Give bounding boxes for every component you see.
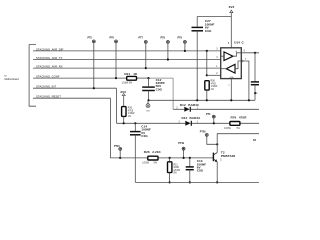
wire STACKING_RESET (33, 97, 111, 99)
ground bus (149, 99, 256, 101)
wire STACKING_AVR_RX (33, 67, 221, 69)
svg-text:D12: D12 (180, 103, 186, 107)
svg-text:PMSTA06: PMSTA06 (221, 154, 236, 158)
svg-text:BAR43: BAR43 (190, 116, 201, 120)
svg-text:5%: 5% (154, 162, 157, 164)
diode D12 (173, 103, 259, 112)
svg-text:475R: 475R (239, 115, 247, 119)
test point PT49 (178, 142, 185, 159)
svg-text:PT6: PT6 (110, 37, 115, 40)
capacitor C13 (186, 157, 207, 184)
wire INT corner down (116, 88, 118, 123)
capacitor C12 (142, 78, 165, 100)
test point PT7 (139, 37, 148, 70)
svg-text:47K5: 47K5 (128, 110, 134, 112)
resistor R36 (205, 81, 218, 102)
transistor T2 (213, 151, 235, 184)
test point PT5 (88, 37, 96, 90)
svg-text:STACKING_INT: STACKING_INT (36, 85, 56, 89)
svg-text:U14: U14 (234, 41, 240, 45)
svg-text:PT49: PT49 (178, 142, 184, 145)
resistor R26 (142, 150, 161, 164)
resistor R76 (224, 115, 247, 130)
svg-text:PT9: PT9 (178, 37, 183, 40)
wire CONF to D12 (172, 78, 174, 109)
svg-text:R30: R30 (128, 108, 133, 110)
resistor R30 (122, 107, 136, 125)
svg-text:5%: 5% (237, 128, 240, 130)
IC output wire (241, 52, 259, 54)
wire collector to edge (217, 134, 259, 153)
svg-text:1/16W: 1/16W (142, 162, 149, 164)
IC GND pin wire (230, 79, 232, 101)
svg-text:D14: D14 (182, 116, 188, 120)
wire STACKING_AVR_DIP (33, 50, 221, 52)
test point PT8 (161, 37, 170, 61)
svg-text:5%: 5% (173, 172, 176, 174)
internal wires (221, 55, 225, 57)
op-amp U14 buffer IC (216, 41, 244, 87)
svg-text:2.21K: 2.21K (152, 150, 161, 154)
svg-text:STACKING_AVR_DIP: STACKING_AVR_DIP (36, 47, 64, 51)
svg-text:Motherboard: Motherboard (5, 78, 20, 81)
resistor R21 (122, 72, 138, 84)
svg-text:1/16W 5%: 1/16W 5% (122, 83, 133, 85)
rail RESET lower (120, 157, 148, 159)
resistor R31 (168, 157, 181, 184)
svg-text:1/16W: 1/16W (211, 86, 218, 88)
svg-text:PT50: PT50 (200, 130, 206, 133)
wire STACKING_CONF (33, 77, 127, 79)
svg-text:STACKING_AVR_TX: STACKING_AVR_TX (36, 56, 62, 60)
svg-text:PT4: PT4 (206, 113, 211, 116)
test point PT4 (206, 113, 216, 125)
svg-text:R36: R36 (211, 81, 216, 83)
test point PT6 (110, 37, 118, 80)
svg-text:C0G: C0G (156, 87, 163, 91)
svg-text:1/16W: 1/16W (128, 113, 135, 115)
node CONF/C12 junction (147, 77, 149, 79)
buffer B triangle (226, 64, 235, 73)
test point PT10 (114, 145, 122, 159)
test point PT50 (200, 130, 218, 145)
wire STACKING_INT (33, 87, 117, 89)
enable bubble pin (241, 60, 243, 62)
diode D14 (179, 116, 201, 126)
power 3V3 (left) (120, 90, 126, 107)
capacitor C14 (130, 122, 151, 182)
svg-text:3V3: 3V3 (229, 5, 235, 9)
svg-text:R26: R26 (144, 150, 150, 154)
svg-text:3V3: 3V3 (120, 90, 126, 94)
svg-text:2: 2 (228, 85, 229, 87)
svg-text:GND: GND (146, 111, 151, 113)
wire STACKING_AVR_TX (33, 59, 221, 61)
svg-text:47K5: 47K5 (211, 83, 217, 85)
test point PT9 (178, 37, 187, 52)
svg-text:1%: 1% (211, 89, 214, 91)
svg-text:1K: 1K (133, 72, 138, 76)
capacitor C27 (192, 17, 215, 102)
buffer A triangle (224, 52, 233, 61)
svg-text:R21: R21 (124, 72, 130, 76)
svg-text:C0G: C0G (205, 29, 212, 33)
capacitor at right edge (251, 53, 259, 101)
svg-text:PT8: PT8 (161, 37, 166, 40)
svg-text:STACKING_RESET: STACKING_RESET (36, 95, 61, 99)
svg-text:1/16W: 1/16W (224, 128, 231, 130)
rail INT lower (117, 122, 186, 124)
bottom ground bus (135, 181, 259, 183)
svg-text:STACKING_AVR_RX: STACKING_AVR_RX (36, 65, 63, 69)
svg-text:R76: R76 (231, 115, 237, 119)
svg-text:C0G: C0G (197, 169, 204, 173)
svg-text:PT5: PT5 (88, 37, 93, 40)
svg-text:GND: GND (230, 77, 235, 79)
wire RESET corner down (111, 98, 121, 158)
ground symbol (146, 100, 151, 112)
svg-text:PT7: PT7 (139, 37, 144, 40)
svg-text:1%: 1% (128, 116, 131, 118)
svg-text:STACKING_CONF: STACKING_CONF (36, 75, 60, 79)
bracket to motherboard (29, 45, 36, 107)
power 3V3 (top right) (229, 5, 235, 48)
wire DIP to pin2 (206, 50, 221, 77)
wire C27 to 3V3 (197, 16, 231, 18)
svg-text:C0G: C0G (141, 134, 148, 138)
